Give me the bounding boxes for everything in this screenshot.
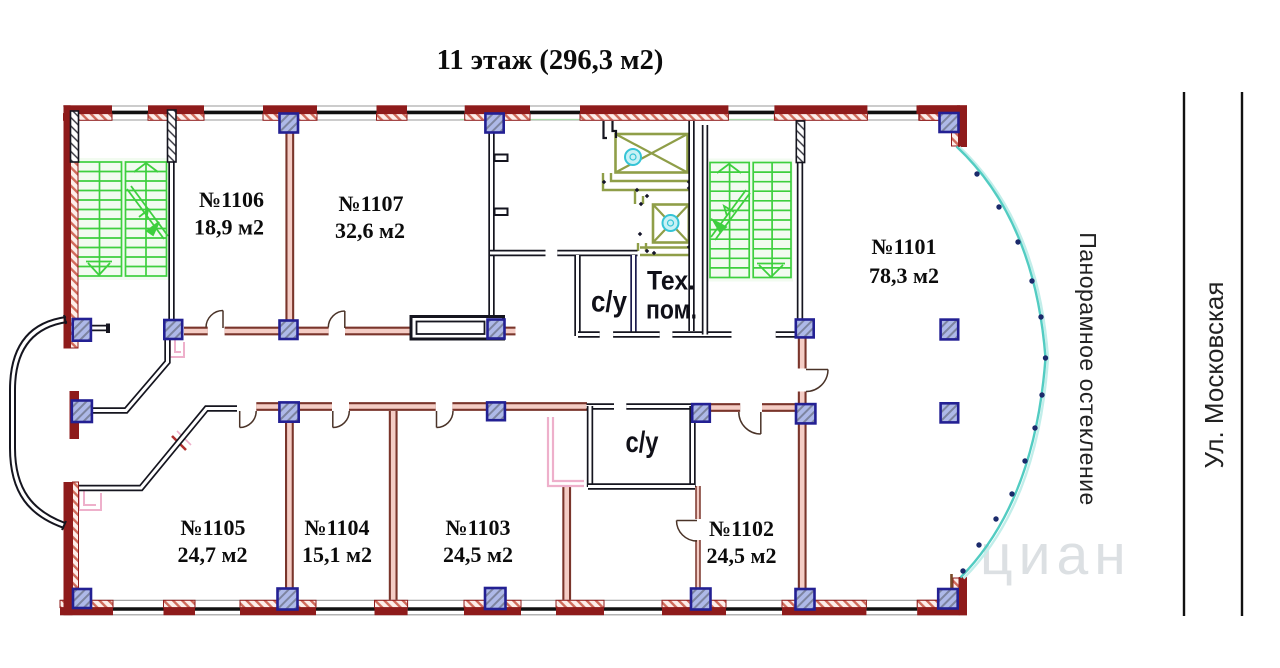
partition wall east of 1102 — [798, 422, 807, 590]
elevator car 1 — [616, 134, 688, 173]
svg-text:№1103: №1103 — [446, 515, 511, 540]
svg-text:№1107: №1107 — [339, 191, 404, 216]
svg-text:№1101: №1101 — [872, 234, 937, 259]
pink door detail on diagonal wall — [172, 431, 191, 450]
door room 1104 — [333, 411, 350, 428]
partition wall between 1106 and 1107 — [285, 121, 294, 323]
room 1107 east wall — [488, 133, 494, 320]
staircase1 east wall — [168, 160, 174, 320]
svg-text:№1105: №1105 — [181, 515, 246, 540]
door room 1102 west — [677, 521, 698, 542]
wall west of 1101 with door gap — [798, 338, 807, 404]
svg-text:№1102: №1102 — [709, 516, 774, 541]
columns corridor south row — [279, 402, 815, 423]
svg-text:32,6 м2: 32,6 м2 — [335, 218, 405, 243]
left wall hatched stair walls — [71, 110, 177, 162]
svg-text:11 этаж (296,3 м2): 11 этаж (296,3 м2) — [437, 45, 664, 76]
label 1106 — [194, 187, 264, 240]
svg-text:циан: циан — [980, 523, 1132, 587]
top wall piers — [64, 105, 961, 120]
corridor upper-left angled wall — [92, 340, 168, 411]
corridor lower-left angled wall — [74, 409, 237, 489]
door room 1106 — [206, 311, 223, 329]
light green sill line — [460, 119, 797, 121]
staircase 2 west wall — [702, 125, 708, 335]
elevator car 2 — [653, 205, 689, 243]
corridor north partition wall — [184, 327, 516, 336]
panoramic glazing text — [1075, 232, 1101, 506]
door room 1102 north — [739, 412, 761, 434]
wall stubs on 1107 east wall — [495, 155, 508, 216]
svg-text:24,7 м2: 24,7 м2 — [178, 542, 248, 567]
left exterior wall middle segment — [70, 391, 80, 439]
columns inside room 1101 — [941, 320, 959, 423]
svg-text:с/у: с/у — [591, 286, 627, 319]
label 1103 — [443, 515, 513, 567]
bottom wall window sill lines — [60, 600, 967, 615]
label 1102 — [707, 516, 777, 568]
balcony double arc — [10, 315, 67, 530]
bottom wall piers — [60, 600, 960, 615]
staircase 1 (left) — [76, 158, 169, 280]
tech room walls — [672, 121, 795, 335]
partition wall between 1105 and 1104 — [285, 421, 294, 590]
columns left wall — [72, 319, 92, 422]
street boundary lines — [1184, 92, 1242, 616]
label tech room — [646, 266, 697, 325]
bathroom north box walls — [557, 253, 659, 336]
svg-text:пом.: пом. — [646, 295, 697, 325]
title — [437, 45, 664, 76]
svg-text:18,9 м2: 18,9 м2 — [194, 215, 264, 240]
svg-text:15,1 м2: 15,1 м2 — [302, 542, 372, 567]
partition right of bathroom south — [696, 403, 797, 412]
svg-text:№1106: №1106 — [199, 187, 264, 212]
partition wall east of 1103 — [562, 487, 571, 601]
columns bottom wall — [73, 588, 958, 610]
partition wall between 1104 and 1103 — [389, 411, 398, 601]
door room 1105 — [240, 411, 257, 428]
top-right corner block — [917, 105, 968, 147]
svg-text:Тех.: Тех. — [647, 266, 695, 296]
bathroom south box walls — [587, 406, 697, 487]
svg-text:Ул. Московская: Ул. Московская — [1199, 282, 1229, 469]
label bathroom north — [591, 286, 627, 319]
label 1105 — [178, 515, 248, 567]
staircase 2 east wall — [797, 162, 803, 320]
panoramic glazing curve — [957, 147, 1049, 579]
elevator door frames — [604, 121, 617, 138]
door room 1103 — [437, 411, 454, 428]
corridor south partition wall — [256, 402, 587, 411]
svg-text:78,3 м2: 78,3 м2 — [869, 263, 939, 288]
pink shaft near corner column — [170, 340, 184, 357]
door room 1107 — [328, 311, 345, 328]
door room 1101 — [806, 370, 828, 392]
columns top wall — [280, 113, 959, 133]
bottom-right corner block — [917, 574, 967, 615]
svg-text:№1104: №1104 — [305, 515, 370, 540]
left exterior wall lower — [64, 482, 79, 615]
elevator pins — [602, 180, 692, 256]
svg-text:с/у: с/у — [626, 426, 659, 459]
top wall window sill lines — [63, 106, 967, 120]
svg-text:Панорамное остекление: Панорамное остекление — [1075, 232, 1101, 506]
top wall window glazing — [112, 111, 919, 115]
staircase 2 (middle) — [708, 159, 793, 282]
bottom wall window glazing — [113, 607, 917, 611]
svg-text:24,5 м2: 24,5 м2 — [443, 542, 513, 567]
elevator lobby south wall — [490, 250, 546, 256]
label 1101 — [869, 234, 939, 288]
columns corridor north row — [164, 320, 813, 340]
left exterior wall upper — [64, 105, 79, 348]
label 1104 — [302, 515, 372, 567]
svg-text:24,5 м2: 24,5 м2 — [707, 543, 777, 568]
street name text — [1199, 282, 1229, 469]
elevator shaft outline — [603, 173, 690, 255]
partition wall west of 1102 (door gap) — [695, 486, 701, 588]
pink detail lower-left corner — [79, 491, 101, 510]
staircase2 hatched wall top — [796, 121, 804, 163]
label bathroom south — [626, 426, 659, 459]
pink shaft left of bathroom south — [548, 417, 584, 486]
portal opening rectangle room 1107 — [411, 317, 504, 340]
glazing mullion dots — [960, 171, 1048, 573]
label 1107 — [335, 191, 405, 243]
wall stub at left column — [91, 324, 110, 334]
watermark cian — [980, 523, 1132, 587]
